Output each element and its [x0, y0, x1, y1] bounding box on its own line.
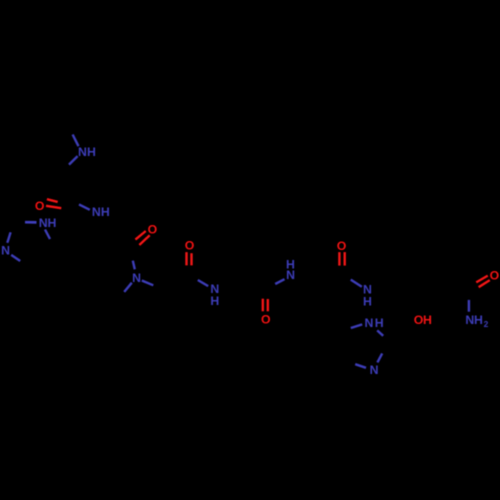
wire terminal C=O double bond, upper line [476, 276, 488, 283]
wire imidazole-1 N3 to C2 bond [7, 232, 10, 243]
wire C=O double bond of amide 3, left line [185, 252, 187, 265]
svg-text:N: N [78, 145, 87, 159]
wire C=O double bond of amide 2, offset line [135, 231, 145, 240]
wire C=O double bond of amide 4, left line [262, 299, 264, 312]
svg-text:H: H [474, 313, 483, 327]
wire C-N bond to amide NH 4 [275, 279, 284, 284]
svg-text:H: H [87, 145, 96, 159]
wire imidazole-2 NH to C2 bond [377, 330, 383, 335]
capacitor-like C=O double bond of amide 1, offset line [47, 199, 58, 202]
svg-text:N: N [365, 316, 374, 330]
wire C=O main line of amide 1 [46, 206, 61, 208]
wire imidazole-2 N3 to C4 bond [355, 364, 366, 368]
svg-text:H: H [363, 294, 372, 308]
svg-text:N: N [92, 205, 101, 219]
svg-text:H: H [48, 216, 57, 230]
wire C=O main line of amide 2 [139, 235, 149, 245]
svg-text:N: N [39, 216, 48, 230]
node OH (hydroxyl) [414, 313, 432, 327]
node NH2 (terminal amide) [465, 313, 488, 329]
wire proline N to ring C5 bond [124, 283, 132, 292]
wire N-CH3 bond (methylamine NH, upper) [73, 135, 79, 147]
svg-text:O: O [337, 239, 347, 253]
svg-text:N: N [1, 243, 10, 257]
wire terminal C=O double bond, lower line [479, 280, 490, 287]
wire C-N bond to amide NH 5 [351, 280, 362, 287]
svg-text:H: H [101, 205, 110, 219]
node NH (imidazole-2 N1) [365, 316, 384, 330]
node NH (amide 1 nitrogen) [92, 205, 110, 219]
wire C=O double bond of amide 4, right line [267, 299, 269, 311]
svg-text:N: N [132, 271, 141, 285]
node NH (amide 5 nitrogen, H below) [363, 283, 372, 309]
wire C-N bond to amide NH 3 [198, 280, 208, 286]
node NH (imidazole-1 N1) [39, 216, 57, 230]
svg-text:O: O [490, 268, 500, 282]
wire ketone C=O double bond, right line [344, 252, 346, 266]
wire imidazole-1 N3 to C4 bond [11, 255, 20, 261]
wire C-N bond to terminal amide NH2 [468, 300, 470, 312]
wire imidazole-1 NH to C5 bond [45, 230, 50, 240]
svg-text:H: H [375, 316, 384, 330]
wire ketone C=O double bond, left line [338, 252, 340, 266]
svg-text:O: O [185, 239, 195, 253]
node NH (amide 3 nitrogen, H below) [210, 282, 219, 308]
wire proline N to carbonyl C bond [133, 261, 135, 270]
node NH (amide 4 nitrogen, H above) [286, 257, 295, 282]
wire imidazole-2 NH to C5 bond [351, 324, 362, 328]
svg-text:N: N [286, 268, 295, 282]
wire imidazole-1 NH to C2 bond (horizontal) [25, 221, 37, 224]
wire imidazole-2 N3 to C2 bond [377, 353, 382, 362]
wire C=O double bond of amide 3, right line [190, 253, 192, 265]
wire C-N bond to amide NH 1 [79, 204, 90, 209]
svg-text:H: H [210, 294, 219, 308]
wire proline N to ring C2 bond [142, 281, 154, 286]
node NH (methylamine nitrogen) [78, 145, 96, 159]
svg-text:O: O [35, 199, 45, 213]
svg-text:O: O [148, 223, 158, 237]
wire N-C bond (methylamine NH, lower) [69, 156, 78, 165]
svg-text:N: N [370, 363, 379, 377]
svg-text:O: O [261, 313, 271, 327]
svg-text:H: H [423, 313, 432, 327]
svg-text:2: 2 [484, 319, 489, 329]
